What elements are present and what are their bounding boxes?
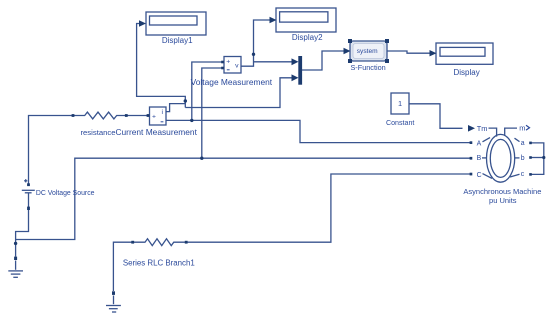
svg-text:b: b (521, 155, 525, 162)
wire CM minus output to machine A (166, 120, 471, 142)
wire Tm into machine (489, 128, 497, 137)
port square VM minus (221, 67, 224, 70)
Current Measurement block U2 (150, 107, 167, 125)
svg-text:B: B (477, 155, 482, 162)
wire (16, 158, 471, 239)
junction node on VM output (252, 53, 255, 56)
port square resistor left (72, 114, 75, 117)
port square battery bottom (27, 207, 30, 210)
port square machine a (529, 142, 532, 145)
wire S-Function output (387, 51, 430, 53)
machine pin line C (483, 174, 493, 179)
Constant block (391, 93, 409, 114)
arrow into mux input2 (292, 74, 299, 81)
machine pin line B (482, 157, 487, 159)
machine pin line a (515, 138, 520, 141)
svg-text:c: c (521, 171, 525, 178)
resistor Series RLC Branch1 (133, 239, 187, 246)
wire CM i output (166, 104, 185, 112)
junction node rotor b (542, 156, 545, 159)
wire VM plus input (192, 62, 223, 120)
selection handle S-Function top-right (385, 39, 389, 43)
arrow into Tm (468, 125, 475, 132)
svg-text:Series RLC Branch1: Series RLC Branch1 (123, 258, 195, 267)
arrow into mux input1 (292, 58, 299, 65)
machine pin line c (510, 174, 520, 177)
S-Function block (350, 41, 387, 61)
svg-text:Voltage Measurement: Voltage Measurement (191, 77, 273, 87)
svg-text:Constant: Constant (386, 119, 414, 127)
port square machine A (470, 141, 473, 144)
wire Constant to Tm (409, 104, 463, 129)
port square machine c (529, 173, 532, 176)
machine pin line b (515, 157, 520, 159)
junction node on A wire (190, 119, 193, 122)
svg-text:Current Measurement: Current Measurement (115, 127, 197, 137)
Voltage Measurement block U1 (224, 57, 241, 74)
wire (186, 174, 470, 242)
port square rlc1 left (131, 241, 134, 244)
wire rotor b (532, 157, 544, 159)
wire to mux input1 (254, 61, 293, 63)
svg-text:v: v (235, 63, 239, 70)
junction node on i wire (184, 99, 187, 102)
svg-text:C: C (477, 172, 482, 179)
svg-text:pu Units: pu Units (489, 196, 517, 205)
svg-text:Display1: Display1 (162, 36, 193, 45)
m port open arrow (526, 125, 530, 130)
svg-text:Tm: Tm (477, 124, 488, 133)
svg-text:1: 1 (398, 99, 402, 108)
Asynchronous Machine outer ellipse (487, 134, 515, 182)
port square rlc1 right (185, 241, 188, 244)
arrow into Display (430, 50, 437, 56)
CM minus (161, 121, 164, 123)
svg-text:Display: Display (453, 68, 479, 77)
svg-text:+: + (226, 59, 230, 66)
wire rotor short a-b-c (532, 143, 544, 175)
wire (126, 115, 148, 117)
port square resistor right (125, 114, 128, 117)
wire VM output (241, 20, 271, 66)
wire m output (505, 128, 517, 135)
DC voltage source battery (22, 179, 35, 193)
svg-text:a: a (521, 140, 525, 147)
arrow into Display2 (270, 17, 277, 23)
Display block (436, 43, 493, 64)
wire VM minus input (202, 68, 223, 158)
port square machine C (470, 173, 473, 176)
svg-text:Display2: Display2 (292, 33, 323, 42)
junction node on B wire (200, 157, 203, 160)
arrow into S-Function (344, 48, 351, 54)
svg-text:+: + (152, 114, 156, 121)
wire to Display1 (137, 24, 186, 108)
wire series rlc branch1 (113, 242, 132, 291)
svg-text:resistance: resistance (80, 128, 115, 137)
svg-text:m: m (519, 123, 525, 132)
Display2 block (276, 8, 336, 32)
svg-text:i: i (162, 109, 164, 116)
port square machine b (529, 156, 532, 159)
selection handle S-Function top-left (348, 39, 352, 43)
port square machine B (470, 157, 473, 160)
wire mux output (302, 51, 344, 70)
wire i to mux (185, 78, 292, 108)
port square ground1 (112, 291, 115, 295)
Asynchronous Machine inner ellipse (490, 139, 511, 177)
wire (15, 261, 17, 270)
ground (8, 271, 23, 277)
selection handle S-Function bottom-right (385, 59, 389, 63)
resistor resistance (73, 112, 126, 119)
svg-text:S-Function: S-Function (350, 63, 385, 72)
junction node dc corner (14, 242, 17, 245)
svg-text:system: system (357, 48, 378, 55)
mux bar (298, 56, 302, 85)
port square CM input (147, 114, 150, 117)
port square battery top (27, 183, 30, 186)
selection handle S-Function bottom-left (348, 59, 352, 63)
VM minus (227, 69, 230, 71)
Display1 block (146, 12, 206, 35)
wire (113, 296, 115, 305)
port square VM plus (221, 61, 224, 64)
ground (106, 306, 121, 313)
wire (29, 116, 74, 185)
wire (16, 193, 29, 257)
svg-text:A: A (477, 140, 482, 147)
arrow into Display1 (139, 20, 146, 26)
svg-text:DC Voltage Source: DC Voltage Source (36, 190, 95, 197)
machine pin line A (483, 138, 491, 142)
port square ground dc (14, 257, 17, 260)
